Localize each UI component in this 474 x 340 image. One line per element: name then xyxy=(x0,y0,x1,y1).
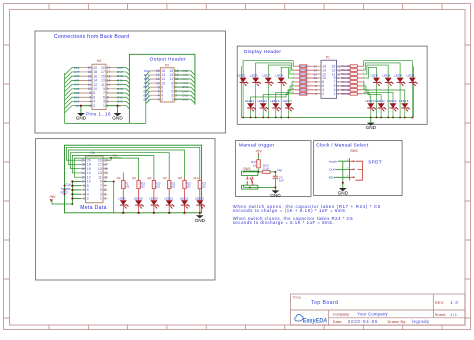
svg-text:R12 620: R12 620 xyxy=(341,73,351,76)
junction on display bus xyxy=(262,117,264,119)
svg-text:LED12: LED12 xyxy=(375,99,385,103)
svg-text:seconds to discharge = 5.1K *: seconds to discharge = 5.1K * 1uF = 5mS. xyxy=(233,220,334,225)
junction on meta bus xyxy=(199,212,201,214)
junction +5V wire at H6 bus xyxy=(71,203,73,205)
junction Y13 wire xyxy=(110,157,112,159)
svg-text:Pins 1..16: Pins 1..16 xyxy=(86,111,111,116)
svg-text:1.0: 1.0 xyxy=(450,300,458,305)
section box: Manual trigger xyxy=(236,141,312,197)
svg-text:LED5: LED5 xyxy=(250,73,258,77)
power flag +5V xyxy=(49,195,56,201)
svg-text:LED16: LED16 xyxy=(399,99,409,103)
section box: Meta Data (outer gray) xyxy=(36,139,216,280)
svg-text:2: 2 xyxy=(322,92,324,96)
net labels right of P2 xyxy=(183,69,189,101)
LED LED9 xyxy=(275,73,286,117)
capacitor C5 1uF xyxy=(273,172,284,188)
section outline: Output Header (green) xyxy=(129,54,195,123)
wire to net flag Y13 xyxy=(107,158,121,160)
svg-text:620: 620 xyxy=(140,184,145,188)
junction on display bus xyxy=(288,117,290,119)
junction on display bus xyxy=(387,117,389,119)
svg-text:GND: GND xyxy=(60,191,68,195)
LED LED19 xyxy=(134,196,144,213)
svg-text:LED2: LED2 xyxy=(371,73,379,77)
section box: Display Header xyxy=(237,46,427,124)
LED LED5 xyxy=(250,73,261,117)
junction on meta bus xyxy=(153,212,155,214)
svg-text:Q3: Q3 xyxy=(147,176,151,180)
svg-text:R4 620: R4 620 xyxy=(300,73,308,76)
svg-text:1/1: 1/1 xyxy=(450,312,458,317)
net labels left of P2 xyxy=(144,69,150,101)
LED LED7 xyxy=(263,73,274,117)
svg-text:1: 1 xyxy=(171,97,173,101)
LED LED23 xyxy=(195,196,205,213)
svg-text:620: 620 xyxy=(156,184,161,188)
svg-text:R8 620: R8 620 xyxy=(300,89,308,92)
svg-text:LED4: LED4 xyxy=(382,73,390,77)
svg-text:LED19: LED19 xyxy=(134,196,143,200)
svg-text:R2 620: R2 620 xyxy=(300,65,308,68)
resistor R15 620 (right of P1) xyxy=(340,84,364,88)
svg-text:Q5: Q5 xyxy=(178,176,182,180)
svg-text:Top Board: Top Board xyxy=(311,300,338,306)
resistor R3 620 (left of P1) xyxy=(293,69,318,73)
svg-text:legrady: legrady xyxy=(412,319,430,324)
resistor R1 620 xyxy=(122,178,130,201)
svg-text:LED14: LED14 xyxy=(387,99,397,103)
LED LED4 xyxy=(382,73,393,117)
section outline: Meta Data (green) xyxy=(65,145,202,213)
junction R17/R24/SW1 xyxy=(258,171,260,173)
svg-text:LED23: LED23 xyxy=(195,196,204,200)
LED LED12 xyxy=(375,99,386,118)
svg-text:P1: P1 xyxy=(326,55,330,59)
resistor R2 620 (left of P1) xyxy=(293,65,318,69)
junctions on meta box edge xyxy=(64,185,66,195)
svg-text:R18 620: R18 620 xyxy=(341,93,351,96)
junction on meta bus xyxy=(122,212,124,214)
LED LED11 xyxy=(245,99,256,118)
wire: fan left of H3 to bus xyxy=(65,68,80,124)
resistor R7 620 (left of P1) xyxy=(293,84,317,88)
connector P2 xyxy=(150,63,182,102)
svg-text:LED11: LED11 xyxy=(245,99,255,103)
junction on display bus xyxy=(250,117,252,119)
LED LED6 xyxy=(394,73,405,117)
svg-text:Sheet:: Sheet: xyxy=(435,313,446,317)
svg-text:Q2: Q2 xyxy=(132,176,136,180)
logo EasyEDA xyxy=(295,314,328,324)
junction at H3 pin 1 xyxy=(116,105,118,107)
junction on display bus xyxy=(275,117,277,119)
svg-text:2: 2 xyxy=(83,197,85,201)
junction on display bus xyxy=(267,117,269,119)
LED LED14 xyxy=(387,99,398,118)
svg-text:SW1: SW1 xyxy=(243,167,250,171)
svg-text:EasyEDA: EasyEDA xyxy=(303,317,328,324)
section box: Connections from Back Board xyxy=(35,31,226,133)
resistor R9 620 (left of P1) xyxy=(291,92,317,96)
resistor R5 620 (left of P1) xyxy=(293,76,318,80)
LED LED17 xyxy=(283,99,294,118)
connector H6 xyxy=(81,151,108,203)
resistor R10 620 (right of P1) xyxy=(340,65,365,69)
wire: display bottom bus xyxy=(241,117,413,119)
svg-text:trigr: trigr xyxy=(277,168,282,172)
resistor R13 620 (right of P1) xyxy=(340,76,365,80)
wire: H3 pin2/pin1 to grounds + bottom bus xyxy=(65,106,146,124)
svg-text:5.1K: 5.1K xyxy=(263,167,269,171)
wires: meta nest from H6 to resistor tops xyxy=(66,147,200,213)
svg-text:LED21: LED21 xyxy=(164,196,173,200)
junction on display bus xyxy=(411,117,413,119)
svg-text:Display Header: Display Header xyxy=(244,49,281,55)
LED LED8 xyxy=(407,73,418,117)
svg-text:Q1: Q1 xyxy=(117,176,121,180)
resistor R8 620 (left of P1) xyxy=(293,88,318,92)
junction on display bus xyxy=(280,117,282,119)
junctions on H6 left bus xyxy=(71,180,73,199)
LED LED22 xyxy=(180,196,190,213)
svg-text:freqdiv: freqdiv xyxy=(329,159,338,163)
switch SW2 SPDT xyxy=(347,149,363,181)
net labels CLK / hwdec / GND at H6 xyxy=(60,183,72,195)
svg-text:SPDT: SPDT xyxy=(368,159,381,164)
svg-text:seconds to charge = (1K + 5.1K: seconds to charge = (1K + 5.1K) * 1uF = … xyxy=(233,208,347,213)
wire: trigger bottom bus xyxy=(244,185,276,187)
svg-text:R14 620: R14 620 xyxy=(341,81,351,84)
wires: display nest left xyxy=(241,61,294,118)
wires: clock select xyxy=(334,161,349,188)
svg-text:TITLE:: TITLE: xyxy=(293,295,302,299)
svg-text:1K: 1K xyxy=(253,163,257,167)
svg-text:Company:: Company: xyxy=(333,312,350,316)
svg-text:LED8: LED8 xyxy=(407,73,415,77)
LED LED21 xyxy=(164,196,174,213)
svg-text:620: 620 xyxy=(201,184,206,188)
svg-text:R16 620: R16 620 xyxy=(341,89,351,92)
ground GND clock xyxy=(338,188,349,196)
switch SW1 (pushbutton) xyxy=(242,167,258,189)
wires: display nest right xyxy=(362,61,413,118)
resistor R11 620 (right of P1) xyxy=(340,69,365,73)
svg-text:GND: GND xyxy=(338,191,349,196)
connector P1 xyxy=(314,55,341,98)
svg-text:1uF: 1uF xyxy=(279,179,284,183)
svg-text:LED1: LED1 xyxy=(119,196,127,200)
junction on meta bus xyxy=(183,212,185,214)
wire: fan right of H3 to Output Header bus xyxy=(116,68,129,109)
svg-text:2: 2 xyxy=(158,97,160,101)
svg-text:R10 620: R10 620 xyxy=(341,65,351,68)
svg-text:Q4: Q4 xyxy=(163,176,167,180)
svg-text:LED17: LED17 xyxy=(283,99,293,103)
wire: H6 left lower pins bus xyxy=(52,180,81,204)
svg-text:1: 1 xyxy=(100,197,102,201)
svg-text:+5V: +5V xyxy=(255,149,262,153)
connector H3 xyxy=(80,59,117,110)
svg-text:LED22: LED22 xyxy=(180,196,189,200)
svg-text:LED13: LED13 xyxy=(257,99,267,103)
junction R24/C5 xyxy=(274,171,276,173)
svg-text:GND: GND xyxy=(76,116,87,121)
junction on display bus xyxy=(404,117,406,119)
section box: Clock / Manual Select xyxy=(314,141,402,196)
wire: fan left of P2 xyxy=(146,71,150,124)
resistor R14 620 (right of P1) xyxy=(340,80,365,84)
junction on meta bus xyxy=(168,212,170,214)
junction clock bus xyxy=(342,182,344,184)
svg-text:CLK: CLK xyxy=(193,176,199,180)
svg-text:LED6: LED6 xyxy=(394,73,402,77)
svg-text:Output Header: Output Header xyxy=(150,56,186,62)
svg-text:+5V: +5V xyxy=(49,195,56,199)
svg-text:Your Company: Your Company xyxy=(357,311,388,316)
svg-text:2: 2 xyxy=(161,97,163,101)
svg-text:P2: P2 xyxy=(165,63,169,67)
LED LED3 xyxy=(237,73,248,117)
junction H6 right wire xyxy=(113,180,115,182)
LED LED20 xyxy=(149,196,159,213)
junction on display bus xyxy=(376,117,378,119)
svg-text:R3 620: R3 620 xyxy=(300,69,308,72)
junction on display bus xyxy=(242,117,244,119)
junction on meta bus xyxy=(138,212,140,214)
svg-text:Drawn By:: Drawn By: xyxy=(388,320,407,324)
svg-text:Clock / Manual Select: Clock / Manual Select xyxy=(316,142,369,148)
svg-text:R7 620: R7 620 xyxy=(300,85,308,88)
junction on display bus xyxy=(392,117,394,119)
wire: junction to switch and R24 xyxy=(244,172,263,173)
resistor R20 620 xyxy=(152,178,161,201)
resistor R19 620 xyxy=(137,178,146,201)
svg-text:2020-04-06: 2020-04-06 xyxy=(348,319,378,324)
LED LED1 xyxy=(119,196,129,213)
svg-text:LED3: LED3 xyxy=(237,73,245,77)
svg-text:R13 620: R13 620 xyxy=(341,77,351,80)
svg-text:555: 555 xyxy=(329,175,334,179)
svg-text:SW2: SW2 xyxy=(350,149,357,153)
svg-text:Date:: Date: xyxy=(333,320,343,324)
svg-text:R6 620: R6 620 xyxy=(300,81,308,84)
svg-text:GND: GND xyxy=(112,116,123,121)
svg-text:LED9: LED9 xyxy=(275,73,283,77)
wire: fan right of P2 xyxy=(174,71,195,103)
LED LED16 xyxy=(399,99,410,118)
ground GND under H3 pin 1 xyxy=(112,113,123,121)
resistor R22 620 xyxy=(183,178,192,201)
svg-text:620: 620 xyxy=(186,184,191,188)
resistor R23 620 xyxy=(198,178,207,201)
svg-text:Connections from Back Board: Connections from Back Board xyxy=(54,34,129,40)
junction on display bus xyxy=(255,117,257,119)
svg-text:GND: GND xyxy=(270,193,281,198)
svg-text:GND: GND xyxy=(366,125,377,130)
svg-text:REV:: REV: xyxy=(435,301,445,305)
svg-text:R9 620: R9 620 xyxy=(300,93,308,96)
power flag +5V (trigger) xyxy=(255,149,262,156)
svg-text:Manual trigger: Manual trigger xyxy=(239,142,275,148)
ground GND trigger xyxy=(270,187,281,198)
resistor R18 620 (right of P1) xyxy=(340,92,366,96)
LED LED10 xyxy=(365,99,376,118)
svg-text:1: 1 xyxy=(333,92,335,96)
svg-text:LED15: LED15 xyxy=(270,99,280,103)
svg-text:2: 2 xyxy=(93,104,95,108)
svg-text:R11 620: R11 620 xyxy=(341,69,351,72)
junction on display bus xyxy=(370,117,372,119)
svg-text:CLK: CLK xyxy=(329,168,335,172)
resistor R4 620 (left of P1) xyxy=(293,72,318,76)
ground GND display xyxy=(366,118,377,131)
svg-text:LED7: LED7 xyxy=(263,73,271,77)
junction SW1 bottom xyxy=(249,187,251,189)
junction on display bus xyxy=(380,117,382,119)
svg-text:LED20: LED20 xyxy=(149,196,158,200)
resistor R17 1K xyxy=(251,156,260,172)
svg-text:R5 620: R5 620 xyxy=(300,77,308,80)
svg-text:R15 620: R15 620 xyxy=(341,85,351,88)
net labels left of H3 xyxy=(74,66,80,108)
resistor R16 620 (right of P1) xyxy=(340,88,365,92)
annotation: RC timing notes xyxy=(233,204,381,225)
junction at H3 pin 2 xyxy=(80,105,82,107)
resistor R12 620 (right of P1) xyxy=(340,72,365,76)
resistor R6 620 (left of P1) xyxy=(293,80,318,84)
svg-text:620: 620 xyxy=(125,184,130,188)
LED LED13 xyxy=(257,99,268,118)
svg-text:GND: GND xyxy=(195,218,206,223)
resistor R24 5.1K xyxy=(263,163,276,173)
LED LED15 xyxy=(270,99,281,118)
ground GND meta xyxy=(195,213,206,223)
svg-text:1: 1 xyxy=(103,104,105,108)
junction on display bus xyxy=(399,117,401,119)
net labels right of H3 xyxy=(117,66,123,108)
LED LED2 xyxy=(371,73,382,117)
title block xyxy=(291,294,466,325)
resistor R21 620 xyxy=(168,178,177,201)
svg-text:H3: H3 xyxy=(97,59,101,63)
svg-text:1: 1 xyxy=(104,197,106,201)
svg-text:Meta Data: Meta Data xyxy=(80,205,106,211)
svg-text:LED10: LED10 xyxy=(365,99,375,103)
junction C5 bottom xyxy=(274,186,276,188)
svg-text:2: 2 xyxy=(87,197,89,201)
svg-text:620: 620 xyxy=(171,184,176,188)
ground GND under H3 pin 2 xyxy=(76,113,87,121)
